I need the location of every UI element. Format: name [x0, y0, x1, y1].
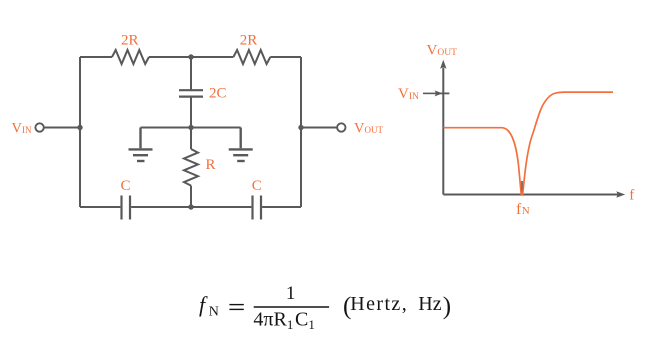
ground (left) [129, 128, 153, 162]
node dot top middle [188, 54, 193, 59]
wire V_IN lead [44, 127, 80, 129]
node dot bottom middle [188, 204, 193, 209]
svg-text:C: C [252, 178, 262, 194]
graph y-axis [442, 68, 444, 195]
svg-text:4πR1 C1: 4πR1 C1 [253, 309, 314, 333]
formula (Hertz, Hz) [343, 293, 451, 320]
svg-text:VIN: VIN [398, 86, 419, 102]
svg-text:Hz: Hz [418, 293, 441, 315]
svg-text:f: f [629, 188, 634, 204]
svg-text:1: 1 [286, 283, 296, 304]
wire V_OUT lead [301, 127, 337, 129]
wire bottom rail left [80, 206, 120, 208]
svg-text:2C: 2C [209, 85, 227, 101]
wire ground row [141, 127, 241, 129]
svg-text:f: f [199, 292, 208, 317]
graph x-axis arrowhead [616, 191, 625, 197]
wire middle stem upper [190, 57, 192, 90]
svg-text:VOUT: VOUT [427, 42, 458, 58]
terminal V_IN [35, 123, 43, 131]
svg-text:R: R [206, 157, 216, 173]
capacitor 2C [179, 90, 203, 96]
svg-text:N: N [209, 305, 219, 320]
formula f_N [199, 292, 219, 320]
wire bottom rail right [262, 206, 301, 208]
resistor R [184, 149, 198, 186]
wire bottom rail middle [131, 206, 251, 208]
graph x-axis [443, 194, 619, 196]
svg-text:VOUT: VOUT [354, 120, 383, 136]
svg-text:C: C [120, 178, 130, 194]
wire left rail [79, 57, 81, 207]
svg-text:N: N [522, 205, 530, 217]
graph V_IN tick [441, 92, 450, 94]
formula fraction bar [254, 306, 329, 308]
wire top rail middle segment [149, 56, 234, 58]
formula equals sign [229, 305, 243, 310]
node dot V_OUT rail [298, 125, 303, 130]
graph y-axis arrowhead [440, 60, 446, 69]
graph V_IN arrow [423, 92, 437, 94]
wire right rail [300, 57, 302, 207]
node dot middle junction [188, 125, 193, 130]
svg-text:VIN: VIN [12, 120, 32, 136]
resistor 2R (left) [112, 50, 149, 64]
wire top rail left segment [80, 56, 112, 58]
ground (right) [229, 128, 253, 162]
svg-text:2R: 2R [240, 33, 258, 49]
svg-text:Hertz,: Hertz, [350, 293, 408, 315]
svg-text:): ) [443, 293, 451, 320]
wire middle stem lower [190, 97, 192, 149]
capacitor C (right) [253, 196, 262, 220]
terminal V_OUT [337, 123, 345, 131]
graph notch tick [521, 181, 523, 195]
graph response curve [444, 92, 614, 194]
resistor 2R (right) [233, 50, 270, 64]
wire below R [190, 186, 192, 207]
capacitor C (left) [122, 196, 131, 220]
wire top rail right segment [270, 56, 301, 58]
node dot at V_IN rail [77, 125, 82, 130]
svg-text:2R: 2R [121, 33, 139, 49]
